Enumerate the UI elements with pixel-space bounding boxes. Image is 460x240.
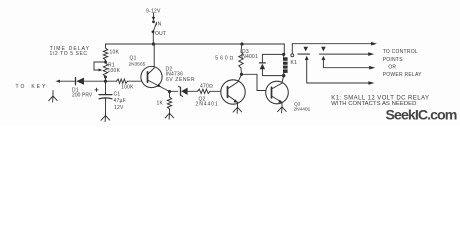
svg-text:2N4401: 2N4401 [196,102,219,108]
node IN [152,20,155,23]
svg-text:2N3565: 2N3565 [129,61,146,67]
note K1 relay [331,95,429,107]
svg-text:12V: 12V [114,105,124,111]
svg-text:IN4001: IN4001 [241,54,259,60]
wire Q2 collector to Q3 base [242,74,266,90]
wire positive rail [106,43,285,45]
wire armature / output line 1 [292,43,372,45]
ground key [52,91,54,97]
diode D3 flyback [241,49,259,60]
wire supply feed arrow [153,13,155,18]
zener D2 [170,90,178,92]
svg-text:1K: 1K [157,101,164,107]
output line 3 arrow [369,66,375,70]
svg-text:Q1: Q1 [130,56,137,62]
contact 1 moving tip [303,47,308,52]
relay armature pivot [291,54,294,57]
svg-text:100K: 100K [121,84,134,90]
resistor 560 ohm [240,44,243,52]
switch S1 lever [153,23,156,32]
ground 1K [165,113,169,118]
resistor 1K [169,92,171,98]
wire rail drop to relay coil [283,44,285,54]
svg-text:1/2 TO 5 SEC: 1/2 TO 5 SEC [50,51,88,57]
label TO CONTROL POINTS OR POWER RELAY [383,49,422,78]
svg-text:TO CONTROL: TO CONTROL [383,49,418,55]
svg-text:POINTS: POINTS [383,57,404,63]
svg-text:WITH CONTACTS AS NEEDED: WITH CONTACTS AS NEEDED [331,101,416,107]
svg-text:100K: 100K [108,68,121,74]
contact 1 terminal arrow [305,56,309,60]
node pot bottom [104,76,107,79]
contact 2 moving tip [321,47,326,52]
svg-text:TO KEY: TO KEY [16,84,48,90]
label 9-12V supply [146,8,161,14]
svg-text:470Ω: 470Ω [200,84,213,90]
node pot top [104,61,107,64]
node coil top [282,53,285,56]
svg-text:560Ω: 560Ω [215,56,235,62]
svg-text:SeekIC.com: SeekIC.com [386,108,457,124]
wire switch to rail [152,33,154,45]
resistor 470 ohm [198,89,211,93]
node base line junction [104,80,107,83]
contact 2 fixed bar / output line 2 [320,53,370,55]
junction on rail at switch [152,42,155,45]
output line 4 arrow [368,81,374,85]
node Q2 collector junction [240,73,243,76]
transistor Q3 2N4401 [266,81,289,104]
svg-text:47µF: 47µF [114,98,127,104]
contact 2 terminal arrow [322,56,326,60]
svg-text:6V ZENER: 6V ZENER [166,77,195,83]
svg-text:K1: K1 [291,60,298,66]
node OUT [152,30,155,33]
svg-text:2N4401: 2N4401 [294,106,311,112]
node coil bottom [282,74,285,77]
svg-text:200 PRV: 200 PRV [72,93,93,99]
ground C1 [101,116,106,121]
contact 1 fixed bar [298,53,310,55]
node emitter junction [168,90,171,93]
transistor Q2 2N4401 [221,80,245,104]
ground Q3 [278,107,282,112]
ground Q2 [233,107,237,112]
resistor 10K [105,44,107,48]
capacitor C1 [105,81,107,94]
diode D1 [75,78,77,85]
svg-text:OUT: OUT [155,31,166,37]
wire to key with arrow [58,80,76,82]
svg-text:OR: OR [388,65,396,71]
svg-text:C1: C1 [114,92,121,98]
wire R1 wiper loop [94,62,106,70]
transistor Q1 2N3565 [141,66,162,87]
resistor 100K base [106,80,117,82]
wire pot to base line [105,77,107,82]
relay coil K1 [283,57,288,73]
node rail 560 junction [240,42,243,45]
label TO KEY [16,84,48,90]
svg-text:POWER RELAY: POWER RELAY [383,72,422,78]
label TIME DELAY [50,46,91,57]
potentiometer R1 100K [103,63,107,77]
svg-text:10K: 10K [110,50,120,56]
